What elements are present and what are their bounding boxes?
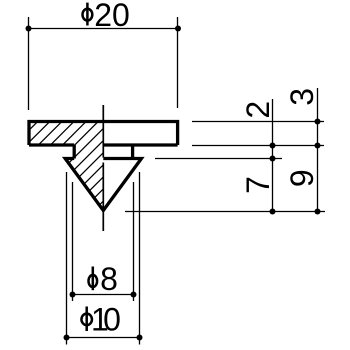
- svg-text:3: 3: [284, 88, 320, 106]
- svg-text:9: 9: [284, 169, 320, 187]
- svg-text:2: 2: [240, 101, 276, 119]
- svg-text:0: 0: [103, 302, 121, 338]
- svg-text:7: 7: [240, 176, 276, 194]
- svg-text:8: 8: [100, 261, 118, 297]
- svg-text:20: 20: [94, 0, 130, 33]
